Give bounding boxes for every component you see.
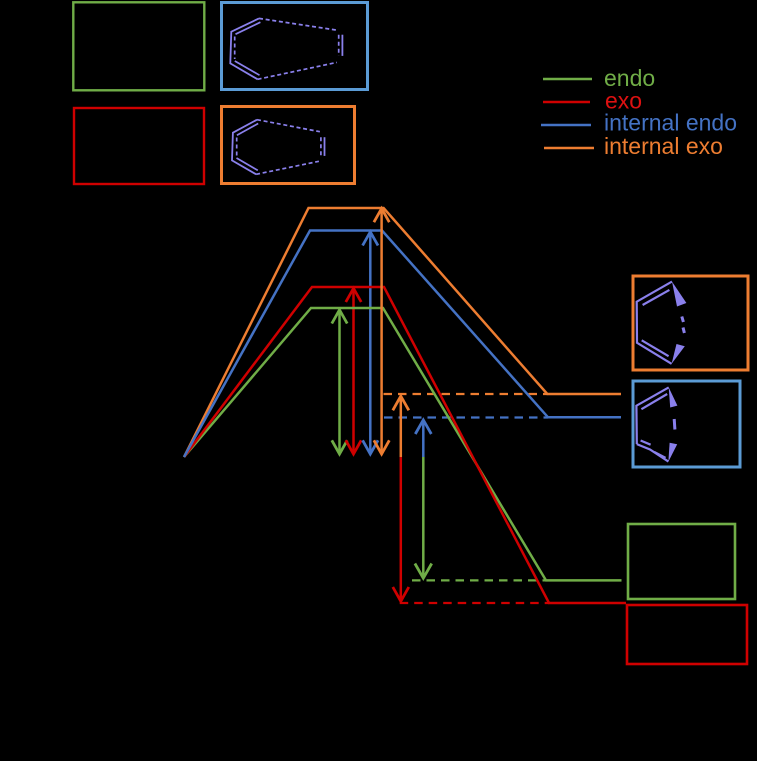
box product endo (green, bottom right): [628, 524, 735, 599]
reaction energy arrow internal exo / exo (orange up, red down): [393, 396, 409, 601]
activation arrow internal endo (blue double arrow): [363, 232, 378, 454]
box product internal-exo (orange, right): [633, 276, 748, 370]
curve internal exo (orange): [184, 208, 621, 457]
curve internal endo (blue): [184, 231, 621, 458]
TS structure in blue box (purple coffin hexagon): [230, 18, 342, 79]
legend labels: [604, 65, 737, 159]
dashed level endo: [412, 579, 546, 581]
box reactant-exo (red, below green): [74, 108, 204, 184]
legend swatch exo: [543, 101, 590, 103]
box product exo (red, bottom right): [627, 605, 747, 664]
svg-text:internal exo: internal exo: [604, 133, 723, 159]
dashed level internal endo: [384, 416, 548, 418]
activation arrow exo (red double arrow): [346, 288, 361, 454]
TS structure in orange box: [232, 120, 325, 175]
box product internal-endo (light blue, right): [633, 381, 740, 467]
dashed level exo: [400, 602, 549, 604]
curve exo (red): [184, 287, 626, 603]
product structure in orange box (purple cyclopentene perspective): [637, 282, 685, 364]
activation arrow endo (green double arrow): [332, 310, 347, 454]
legend swatch endo: [543, 78, 592, 80]
curve endo (green): [184, 308, 622, 580]
reaction energy arrow internal endo / endo (blue up, green down): [415, 420, 432, 578]
activation arrow internal exo (orange double arrow): [374, 209, 389, 455]
dashed level internal exo: [384, 393, 548, 395]
svg-text:internal endo: internal endo: [604, 110, 737, 136]
box TS-internal-endo (light blue): [222, 3, 368, 90]
box TS-internal-exo (orange): [222, 107, 355, 184]
box reactant-endo (green, top-left): [73, 2, 204, 90]
product structure in blue box: [636, 387, 675, 461]
legend swatch internal endo: [541, 124, 591, 126]
legend swatch internal exo: [544, 147, 594, 149]
